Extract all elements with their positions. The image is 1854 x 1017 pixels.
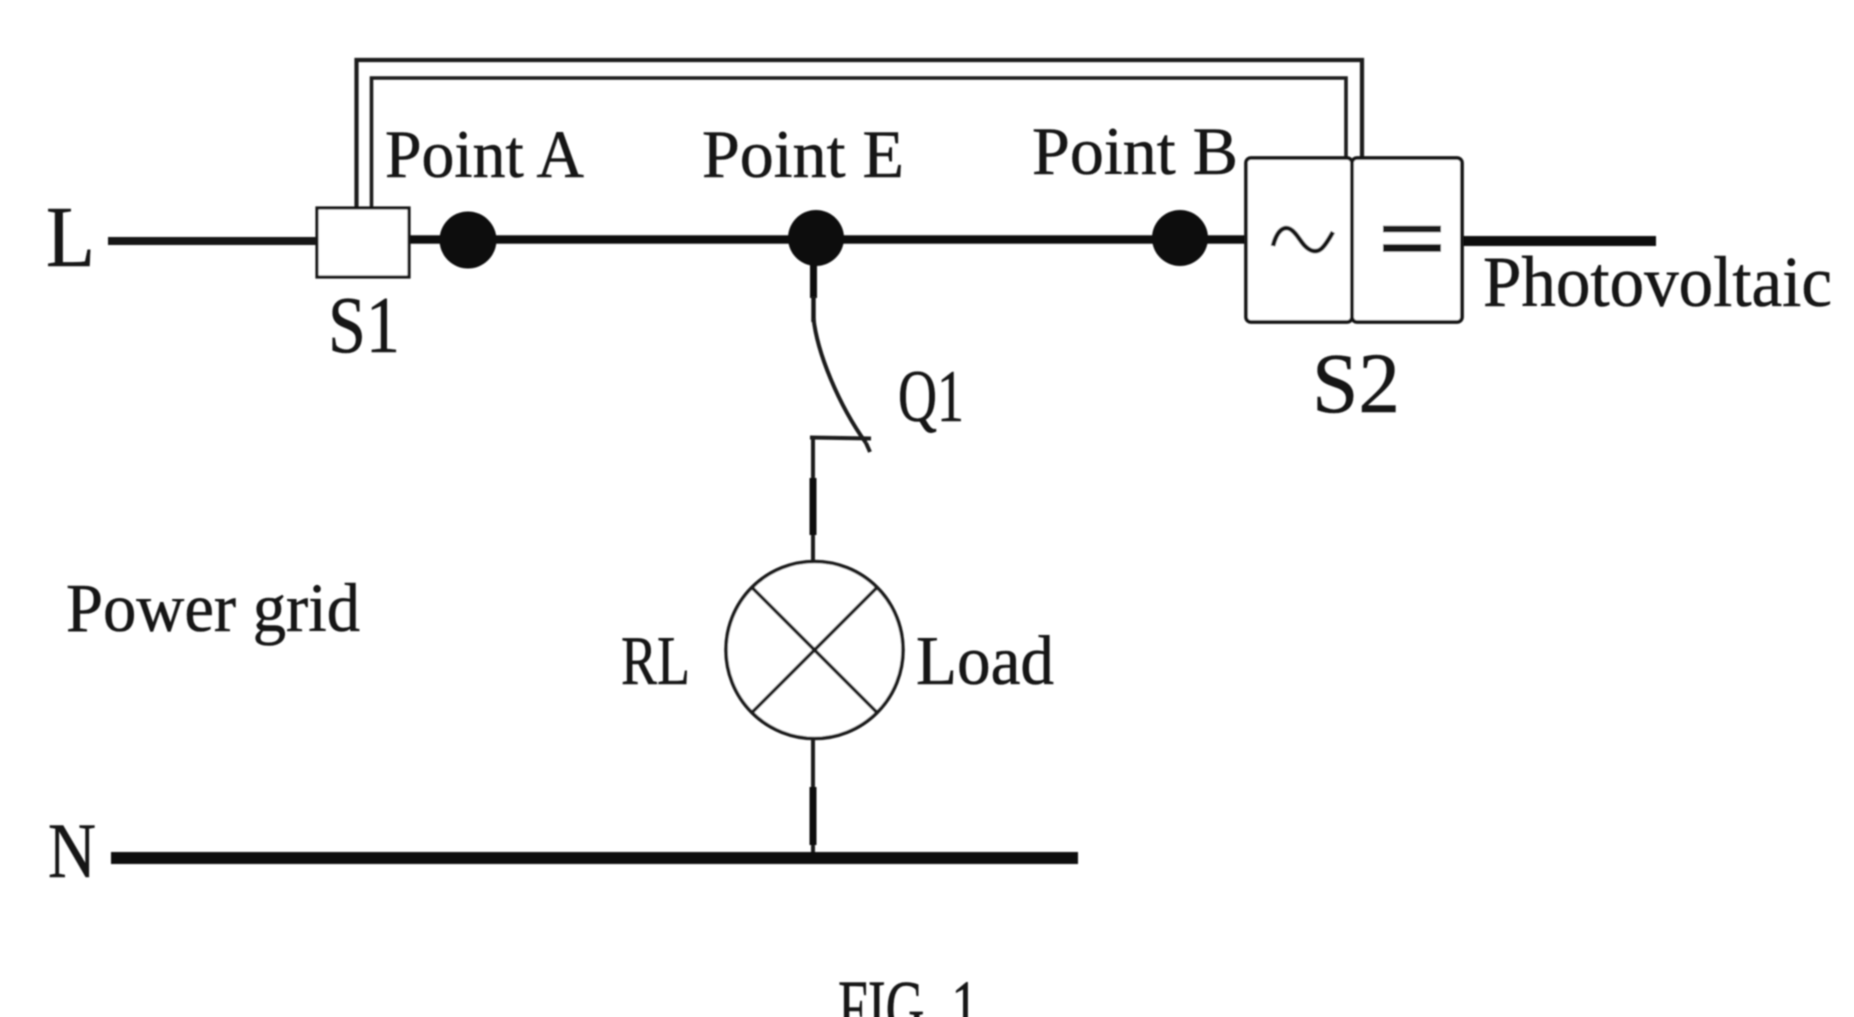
svg-text:Load: Load xyxy=(916,623,1054,700)
svg-text:RL: RL xyxy=(621,623,690,700)
svg-text:Q1: Q1 xyxy=(898,356,964,438)
switch S1 xyxy=(317,208,409,277)
switch Q1 contact tick xyxy=(810,438,871,439)
lamp X diagonal 2 xyxy=(752,588,877,713)
DC equals bars xyxy=(1383,226,1441,233)
sine symbol xyxy=(1273,228,1333,251)
node E xyxy=(788,210,844,266)
wire E drop xyxy=(810,252,817,298)
wire L feed xyxy=(108,237,318,245)
wire loop outer xyxy=(357,60,1363,208)
wire lamp to N xyxy=(811,738,815,858)
svg-text:S1: S1 xyxy=(328,282,400,370)
lamp X diagonal 1 xyxy=(752,588,877,713)
wire S2 to photovoltaic xyxy=(1461,236,1656,246)
node B xyxy=(1152,210,1208,266)
svg-text:Power grid: Power grid xyxy=(66,570,360,646)
wire main bus A-E-B xyxy=(408,235,1247,244)
wire Q1 to lamp xyxy=(811,437,815,563)
svg-text:Point A: Point A xyxy=(385,116,584,192)
switch Q1 blade xyxy=(814,318,871,452)
wire N bus xyxy=(111,852,1078,864)
inverter S2 box right (DC) xyxy=(1352,158,1462,322)
svg-text:FIG. 1: FIG. 1 xyxy=(838,964,978,1017)
wire loop inner xyxy=(372,78,1347,208)
svg-text:Photovoltaic: Photovoltaic xyxy=(1483,242,1832,322)
lamp RL circle xyxy=(726,562,903,739)
svg-text:S2: S2 xyxy=(1312,335,1400,431)
svg-text:N: N xyxy=(48,807,96,894)
inverter S2 box left (AC) xyxy=(1246,158,1352,322)
node A xyxy=(440,212,497,269)
svg-text:Point E: Point E xyxy=(702,116,904,192)
svg-text:L: L xyxy=(46,188,95,285)
svg-text:Point B: Point B xyxy=(1032,113,1238,189)
